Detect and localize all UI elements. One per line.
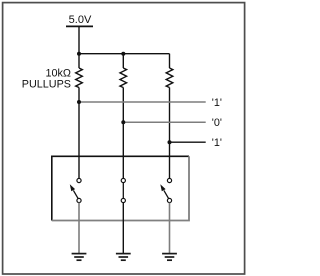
svg-text:PULLUPS: PULLUPS: [22, 79, 71, 91]
wire output line 1: [79, 101, 206, 103]
wire from 5.0V bar down: [78, 26, 80, 53]
switch S2 arm closed: [122, 183, 124, 199]
resistor R2: [120, 68, 127, 88]
wire S3 to ground: [169, 203, 171, 254]
node junction col1/line1: [77, 100, 81, 104]
switch S1 terminal top: [77, 178, 81, 182]
power rail bar 5.0V: [66, 25, 93, 27]
switch S3 arm: [164, 190, 169, 198]
node junction col3/line3: [168, 140, 172, 144]
border frame: [3, 3, 245, 274]
node junction rail/col2: [121, 52, 125, 56]
wire S2 to ground: [122, 203, 124, 254]
svg-text:'0': '0': [212, 117, 222, 129]
wire col2 lower to box: [122, 88, 124, 179]
node junction col2/line2: [121, 120, 125, 124]
switch S3 terminal bottom: [167, 198, 171, 202]
switch S2 terminal top: [121, 178, 125, 182]
wire S1 to ground: [78, 203, 80, 254]
wire output line 3: [170, 141, 206, 143]
switch S1 arm: [73, 190, 78, 198]
ground G2: [116, 254, 131, 261]
wire output line 2: [123, 121, 205, 123]
resistor R3: [166, 68, 173, 88]
svg-text:5.0V: 5.0V: [69, 14, 92, 26]
wire col3 upper: [169, 54, 171, 68]
node junction rail/col1: [77, 52, 81, 56]
wire col1 upper: [78, 54, 80, 68]
switch S2 terminal bottom: [121, 198, 125, 202]
switch S3 terminal top: [167, 178, 171, 182]
svg-text:'1': '1': [212, 97, 222, 109]
switch box right/bottom edges: [52, 156, 189, 220]
ground G3: [162, 254, 177, 261]
switch S1 terminal bottom: [77, 198, 81, 202]
switch box top/left edges: [52, 156, 189, 220]
resistor R1: [76, 68, 83, 88]
ground G1: [72, 254, 87, 261]
wire col2 upper: [122, 54, 124, 68]
wire top rail: [79, 53, 170, 55]
svg-text:'1': '1': [212, 137, 222, 149]
wire col1 lower to box: [78, 88, 80, 179]
wire col3 lower to box: [169, 88, 171, 179]
